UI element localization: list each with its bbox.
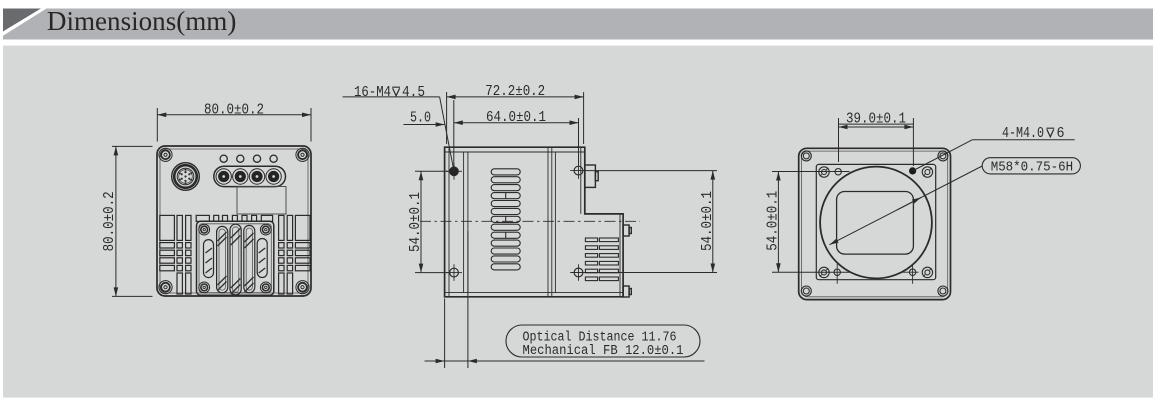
side vent slots (491, 169, 520, 270)
svg-text:54.0±0.1: 54.0±0.1 (407, 192, 424, 252)
pin hole BR (909, 269, 915, 275)
top-right connector tab (585, 165, 598, 187)
svg-text:16-M4: 16-M4 (354, 84, 391, 101)
dim: 80.0±0.2 left (left view) (112, 146, 153, 296)
dim: 54.0±0.1 right of side view (586, 171, 717, 273)
dim: 64.0±0.1 (454, 118, 579, 164)
svg-text:4.5: 4.5 (402, 84, 425, 101)
M58 diagonal leader with arrows (830, 166, 983, 245)
front corner screws (801, 151, 948, 296)
label: optical distance stadium (506, 325, 700, 357)
pin hole BL (834, 269, 840, 275)
SDI connector 2 (233, 169, 248, 184)
svg-text:5.0: 5.0 (410, 110, 431, 127)
interior partition double line (464, 152, 468, 293)
svg-text:Mechanical FB 12.0±0.1: Mechanical FB 12.0±0.1 (523, 344, 684, 359)
fan panel screws (199, 224, 271, 293)
connector stadium plate (214, 166, 286, 186)
svg-text:72.2±0.2: 72.2±0.2 (485, 83, 545, 100)
SDI connector 4 (266, 169, 281, 184)
SDI connector 1 (216, 169, 231, 184)
seam between body and front bezel (548, 147, 555, 297)
label: M58*0.75-6H stadium (982, 158, 1080, 174)
central fan panel (197, 221, 274, 295)
M4 mount screw BR (922, 267, 932, 277)
svg-text:39.0±0.1: 39.0±0.1 (846, 110, 906, 127)
svg-text:80.0±0.2: 80.0±0.2 (101, 191, 118, 251)
dim: mechanical FB 12.0 bottom (425, 231, 705, 368)
fan slot 5 (257, 239, 267, 278)
pin hole TR (filled) (909, 167, 916, 174)
svg-text:Dimensions(mm): Dimensions(mm) (47, 6, 237, 36)
SDI connector 3 (249, 169, 264, 184)
fan slot 3 (center) (230, 224, 241, 295)
dim: 39.0±0.1 (839, 118, 914, 166)
svg-text:M58*0.75-6H: M58*0.75-6H (991, 160, 1073, 175)
dim: 54.0±0.1 left of side view (415, 171, 449, 272)
left vent cluster (160, 215, 191, 294)
dim: 54.0±0.1 right view (772, 172, 850, 273)
circular power connector (172, 163, 200, 191)
sensor window (837, 192, 914, 255)
svg-text:64.0±0.1: 64.0±0.1 (486, 109, 546, 126)
front inner plate (816, 164, 935, 279)
front face tabs (623, 225, 631, 297)
M58 lens mount circles (820, 167, 932, 279)
M4 mount screw TL (819, 167, 829, 177)
side screw bottom-left (446, 264, 462, 281)
right vent cluster (279, 215, 310, 294)
body outline (157, 146, 311, 296)
lens section vent bars (585, 238, 618, 281)
svg-text:80.0±0.2: 80.0±0.2 (204, 102, 264, 119)
dim: 80.0±0.2 top (left view) (157, 108, 311, 142)
optical axis centerline (420, 220, 640, 222)
side inner lines (445, 147, 623, 297)
svg-text:54.0±0.1: 54.0±0.1 (699, 191, 716, 251)
corner screws (left view) (159, 148, 309, 294)
header corner triangle (3, 9, 41, 32)
side screw top-left (filled) (446, 163, 462, 180)
side screw bottom-right (570, 264, 587, 281)
label plate rectangle (237, 187, 286, 215)
M4 mount screw BL (819, 267, 829, 277)
fan slot 2 (217, 226, 228, 292)
side body outline (445, 147, 623, 297)
top vent square row (196, 215, 272, 221)
dim: 72.2±0.2 (447, 92, 584, 144)
M4 mount screw TR (922, 167, 932, 177)
header bar (3, 9, 1153, 40)
fan slot 4 (244, 225, 255, 292)
pin hole BL crosshair (837, 264, 918, 284)
side screw top-right (570, 162, 587, 179)
svg-text:54.0±0.1: 54.0±0.1 (765, 191, 782, 251)
front body outline (799, 148, 951, 299)
fan slot 1 (204, 240, 214, 278)
LED indicator row (220, 155, 277, 162)
pin hole TL (835, 169, 841, 175)
